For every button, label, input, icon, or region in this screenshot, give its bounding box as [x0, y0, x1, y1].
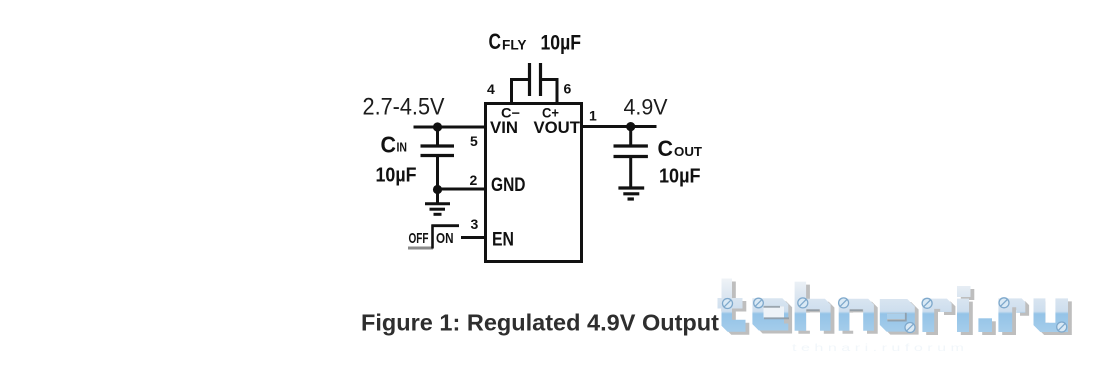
svg-text:3: 3: [471, 216, 479, 232]
wm letter t crossbar: [718, 298, 743, 309]
svg-text:2.7-4.5V: 2.7-4.5V: [363, 94, 445, 121]
svg-text:OUT: OUT: [674, 144, 702, 159]
ground symbol right: [618, 188, 644, 199]
wm letter n: [839, 299, 874, 331]
wire GND to pin2: [438, 188, 486, 191]
wm counter clears: [764, 298, 1056, 330]
svg-text:C: C: [381, 132, 397, 158]
svg-text:6: 6: [564, 81, 572, 97]
svg-text:GND: GND: [491, 175, 526, 196]
svg-text:4.9V: 4.9V: [624, 95, 668, 120]
label CFLY value: [489, 29, 582, 55]
ground symbol left: [425, 190, 450, 215]
svg-text:10µF: 10µF: [659, 166, 701, 188]
label CIN: [381, 132, 408, 158]
svg-text:1: 1: [589, 108, 597, 124]
wm letter i dot: [957, 286, 971, 297]
capacitor CFLY plates: [530, 63, 541, 96]
svg-text:t e h n a r i . r u f o r u m: t e h n a r i . r u f o r u m: [792, 342, 964, 354]
node input junction: [433, 122, 442, 131]
wm inner shadow lines: [764, 307, 907, 322]
wm letter h: [795, 282, 831, 331]
wm letter e: [752, 298, 788, 330]
svg-text:OFF: OFF: [409, 230, 429, 247]
node output junction: [626, 122, 635, 131]
wire CFLY right to pin6: [542, 80, 557, 104]
wm letter r2: [998, 298, 1025, 332]
switch OFF/ON step symbol: [408, 225, 459, 249]
node GND junction: [433, 185, 442, 194]
svg-text:Figure 1: Regulated 4.9V Outpu: Figure 1: Regulated 4.9V Output: [361, 310, 719, 336]
svg-text:10µF: 10µF: [376, 165, 417, 187]
svg-text:5: 5: [470, 133, 478, 149]
wm letter a: [880, 299, 915, 332]
capacitor CIN: [421, 127, 455, 190]
svg-text:10µF: 10µF: [541, 32, 582, 55]
svg-text:VIN: VIN: [490, 118, 518, 137]
wm screws: [723, 298, 1067, 333]
svg-text:VOUT: VOUT: [534, 118, 581, 137]
capacitor COUT: [614, 127, 648, 187]
wire VIN input: [414, 126, 486, 129]
wm letter r1: [922, 299, 951, 332]
watermark shadow layer: [721, 282, 1072, 336]
wm letter t stem: [722, 279, 746, 332]
watermark tehnari.ru: [718, 279, 1072, 355]
svg-text:EN: EN: [492, 230, 514, 251]
wm letter u: [1034, 298, 1069, 332]
wire EN: [461, 236, 486, 239]
wm letter i stem: [957, 299, 969, 332]
watermark letters layer: [718, 279, 1069, 333]
svg-text:FLY: FLY: [502, 37, 527, 53]
label COUT: [658, 136, 703, 161]
IC U1 body: [486, 104, 582, 262]
svg-text:C: C: [658, 136, 674, 161]
svg-text:IN: IN: [397, 140, 408, 155]
wm period: [978, 318, 992, 332]
svg-text:ON: ON: [436, 230, 454, 247]
wire CFLY left to pin4: [512, 80, 529, 104]
wire VOUT output: [582, 125, 657, 128]
svg-text:2: 2: [470, 172, 478, 188]
svg-text:C: C: [489, 29, 502, 54]
svg-text:4: 4: [487, 81, 495, 97]
